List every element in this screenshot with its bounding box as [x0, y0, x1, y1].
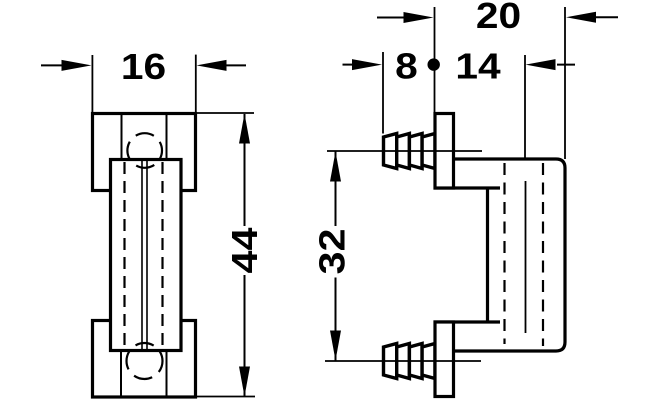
edge line top-right	[166, 114, 168, 160]
slot top edge (bottom arm)	[434, 320, 501, 323]
middle block	[111, 160, 182, 351]
top dowel barb 3	[409, 134, 422, 169]
bottom flange plate	[435, 322, 454, 397]
svg-text:8: 8	[395, 47, 418, 87]
edge line bottom-right	[166, 351, 168, 398]
dashed circle top (dowel position)	[127, 133, 162, 168]
center line right	[146, 160, 148, 350]
extension line 20 right	[564, 7, 566, 159]
top flange plate	[435, 114, 454, 189]
extension line 14 right	[524, 55, 526, 159]
extension line 44 top	[197, 112, 254, 114]
dimension line 44 lower segment	[244, 275, 246, 396]
bottom block	[93, 321, 196, 398]
edge line bottom-left	[120, 351, 122, 398]
body (rounded)	[454, 159, 566, 351]
bottom dowel barb 1	[384, 344, 397, 379]
hidden dashed line right	[161, 162, 163, 349]
extension line 16 left	[91, 55, 93, 113]
bottom dowel barb 2	[397, 344, 410, 379]
dimension arrow 8 left	[343, 59, 383, 70]
hidden dashed line body left	[503, 163, 505, 344]
svg-text:20: 20	[476, 0, 521, 36]
inner solid line body	[525, 181, 527, 333]
dimension arrow 16 left	[41, 60, 92, 71]
dimension dot 8/14 junction	[428, 58, 440, 70]
bottom dowel center line	[325, 360, 481, 362]
svg-text:16: 16	[121, 47, 166, 87]
dimension line 32 lower segment	[335, 278, 337, 362]
dimension arrow 20 right	[566, 12, 618, 23]
top block	[93, 114, 196, 191]
extension line 8 left	[382, 52, 384, 134]
dimension line 44 upper segment	[244, 114, 246, 226]
bottom dowel barb 3	[409, 344, 422, 379]
dimension arrow 32 down	[330, 331, 341, 361]
extension line 44 bottom	[196, 396, 255, 398]
dimension arrow 16 right	[197, 60, 247, 71]
top dowel center line	[327, 150, 482, 152]
extension line 20 left / 8-14 junction	[434, 7, 436, 112]
dimension arrow 44 down	[239, 367, 250, 397]
dimension arrow 14 right	[526, 59, 576, 70]
bottom dowel barb 4	[422, 344, 435, 379]
svg-text:44: 44	[225, 227, 265, 273]
top dowel barb 4	[422, 134, 435, 169]
hidden dashed line body right	[542, 163, 544, 346]
dimension arrow 44 up	[239, 114, 250, 144]
edge line top-left	[121, 114, 123, 160]
svg-text:32: 32	[313, 228, 353, 274]
center line left	[141, 160, 143, 350]
slot bottom edge (top arm)	[434, 186, 501, 189]
top dowel barb 1	[384, 134, 397, 169]
extension line 16 right	[195, 55, 197, 113]
top dowel barb 2	[397, 134, 410, 169]
dimension arrow 20 left	[377, 12, 434, 23]
dimension line 32 upper segment	[335, 151, 337, 226]
dimension arrow 32 up	[330, 152, 341, 182]
hidden dashed line left	[123, 162, 125, 349]
slot back edge	[486, 188, 489, 322]
dashed circle bottom (dowel position)	[127, 343, 163, 379]
svg-text:14: 14	[455, 47, 501, 87]
